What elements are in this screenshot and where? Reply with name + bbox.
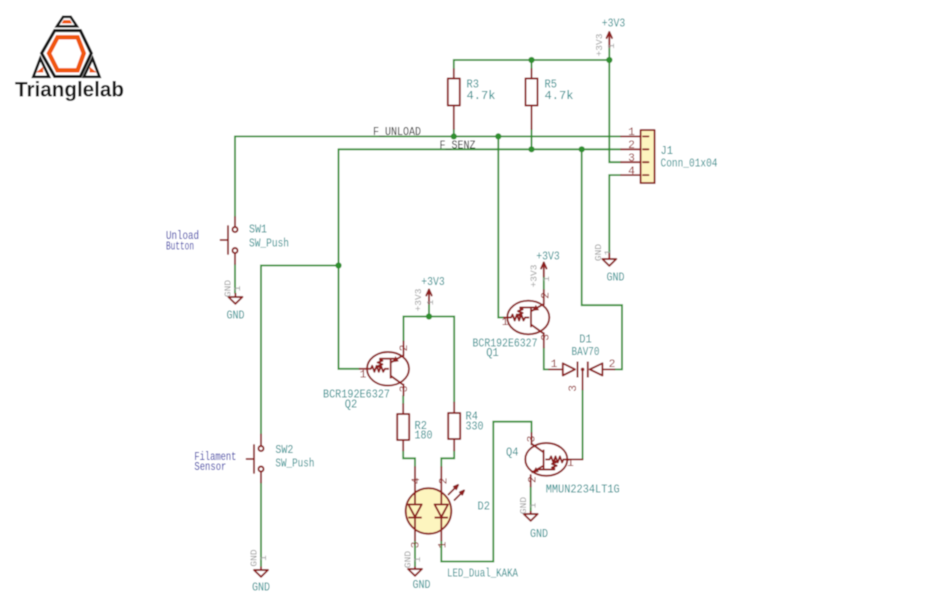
svg-text:1: 1 (425, 299, 436, 305)
svg-text:SW1: SW1 (249, 223, 267, 237)
svg-text:GND: GND (252, 581, 270, 595)
svg-text:GND: GND (227, 309, 245, 323)
svg-text:2: 2 (628, 140, 635, 152)
svg-text:2: 2 (609, 359, 616, 371)
svg-text:1: 1 (606, 43, 617, 49)
svg-text:+3V3: +3V3 (602, 17, 626, 31)
svg-text:+3V3: +3V3 (536, 250, 560, 264)
svg-text:+3V3: +3V3 (594, 33, 605, 56)
svg-text:SW_Push: SW_Push (275, 456, 314, 470)
svg-text:GND: GND (607, 271, 625, 285)
svg-text:180: 180 (415, 429, 433, 443)
svg-text:1: 1 (258, 555, 269, 561)
svg-text:330: 330 (466, 419, 484, 433)
svg-text:1: 1 (360, 370, 367, 382)
svg-text:Q4: Q4 (506, 446, 519, 460)
svg-text:+3V3: +3V3 (413, 288, 424, 311)
svg-text:1: 1 (502, 317, 509, 329)
svg-text:Q2: Q2 (345, 398, 358, 412)
svg-text:3: 3 (527, 435, 539, 442)
svg-text:Button: Button (166, 239, 194, 253)
svg-text:4.7k: 4.7k (545, 89, 574, 103)
svg-text:+3V3: +3V3 (529, 264, 540, 287)
svg-text:3: 3 (628, 153, 635, 165)
svg-text:4: 4 (411, 477, 423, 484)
svg-text:1: 1 (412, 556, 423, 562)
svg-text:1: 1 (551, 359, 558, 371)
svg-text:1: 1 (438, 541, 450, 548)
svg-text:F_SENZ: F_SENZ (440, 139, 476, 153)
svg-text:+3V3: +3V3 (421, 275, 445, 289)
svg-text:Sensor: Sensor (194, 460, 226, 474)
svg-text:F_UNLOAD: F_UNLOAD (373, 125, 421, 139)
svg-text:2: 2 (541, 292, 553, 299)
svg-text:2: 2 (399, 345, 411, 352)
svg-text:1: 1 (528, 502, 539, 508)
svg-text:BCR192E6327: BCR192E6327 (473, 336, 538, 350)
svg-text:Conn_01x04: Conn_01x04 (661, 157, 718, 171)
svg-text:Trianglelab: Trianglelab (15, 79, 124, 102)
svg-text:4.7k: 4.7k (467, 89, 496, 103)
svg-text:1: 1 (628, 127, 635, 139)
svg-text:1: 1 (232, 285, 243, 291)
svg-text:Q1: Q1 (486, 346, 499, 360)
svg-text:SW2: SW2 (275, 443, 293, 457)
svg-text:1: 1 (567, 458, 574, 470)
svg-text:2: 2 (439, 478, 451, 485)
svg-text:3: 3 (411, 541, 423, 548)
svg-text:1: 1 (603, 249, 614, 255)
svg-text:4: 4 (628, 166, 635, 178)
svg-text:3: 3 (399, 385, 411, 392)
svg-text:BAV70: BAV70 (572, 345, 600, 359)
svg-text:3: 3 (541, 334, 553, 341)
svg-text:MMUN2234LT1G: MMUN2234LT1G (546, 483, 620, 497)
svg-text:1: 1 (541, 276, 552, 282)
svg-text:GND: GND (413, 578, 431, 592)
svg-text:D2: D2 (478, 500, 491, 514)
svg-text:GND: GND (530, 527, 548, 541)
svg-text:3: 3 (568, 385, 580, 392)
svg-text:2: 2 (528, 476, 540, 483)
svg-text:LED_Dual_KAKA: LED_Dual_KAKA (447, 567, 519, 581)
svg-text:SW_Push: SW_Push (249, 237, 289, 251)
